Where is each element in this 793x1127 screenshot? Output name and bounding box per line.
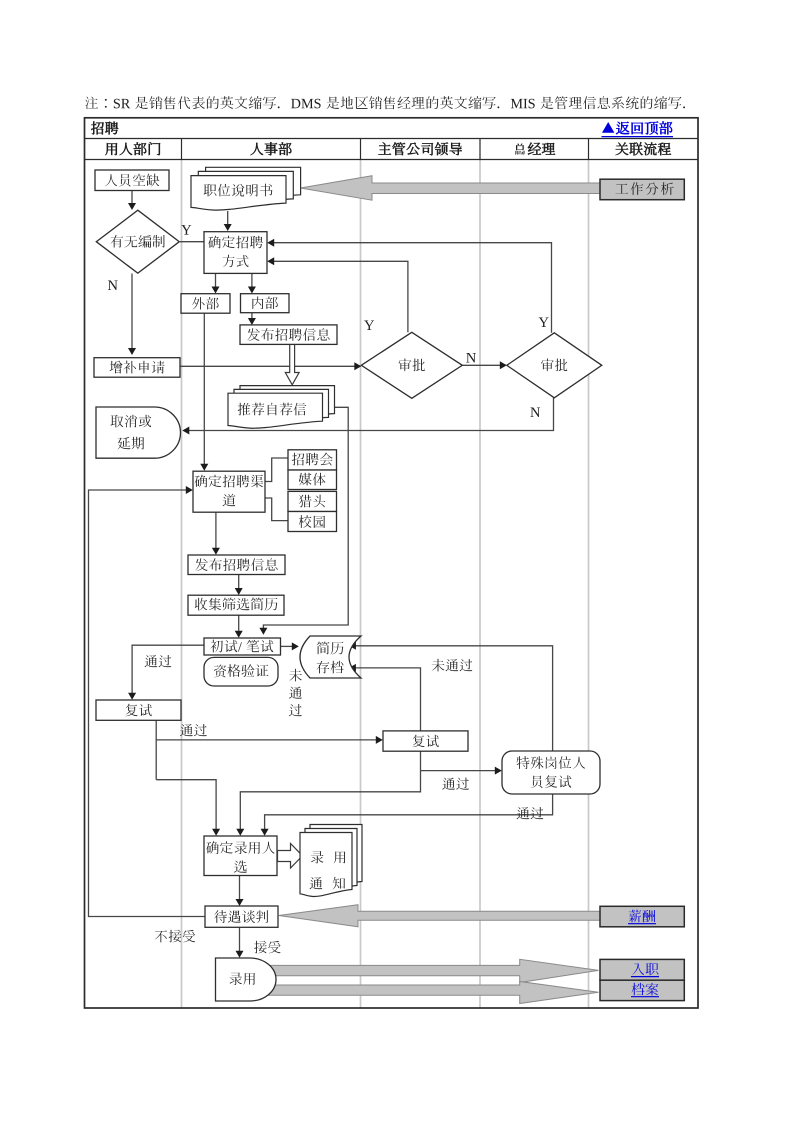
- gray arrow from 工作分析 to 职位说明书: [301, 176, 602, 201]
- wire 发布招聘信息2 to 收集筛选简历: [238, 575, 240, 590]
- related link box 入职: [600, 959, 684, 980]
- node 人员空缺: [95, 170, 169, 191]
- wire 审批2 Y up to 确定招聘方式: [273, 243, 552, 333]
- document stack 推荐自荐信: [240, 386, 335, 421]
- wire 推荐自荐信 to 初试笔试: [263, 407, 348, 629]
- table body column dividers: [181, 160, 183, 1009]
- wire 复试2 to 确定录用人选 b: [240, 771, 420, 831]
- wire 收集筛选简历 to 初试笔试: [238, 615, 240, 632]
- node 发布招聘信息 1: [240, 325, 337, 345]
- node 招聘会: [288, 450, 337, 470]
- wire 复试1 down-branch: [155, 720, 157, 779]
- node 发布招聘信息 2: [188, 555, 285, 575]
- label N approval1: [466, 353, 476, 362]
- header 主管公司领导: [379, 142, 391, 154]
- wire branch to 确定录用人选 a: [156, 780, 216, 831]
- label Y approval1: [364, 321, 374, 330]
- node 确定招聘方式: [204, 232, 267, 274]
- node 资格验证: [204, 657, 278, 686]
- header 用人部门: [105, 143, 117, 155]
- wire 外部 down to 确定招聘渠道: [203, 313, 205, 465]
- note text: [85, 97, 98, 110]
- node 猎头: [288, 491, 337, 511]
- node 增补申请: [94, 358, 180, 378]
- header 关联流程: [616, 142, 629, 155]
- document stack 职位说明书: [206, 167, 301, 202]
- label Y approval2: [539, 318, 549, 327]
- node 初试笔试: [204, 638, 281, 655]
- node 外部: [181, 294, 230, 314]
- label 未通过 vertical: [289, 669, 302, 682]
- node 待遇谈判: [205, 906, 278, 927]
- label 未通过 right: [432, 659, 445, 672]
- stored-data 简历存档: [300, 636, 361, 678]
- wire 复试2 未通过 up to 简历存档: [354, 668, 421, 731]
- gray arrow from 录用 to 入职: [263, 959, 599, 982]
- link 返回顶部: [602, 122, 614, 133]
- decision 审批2: [507, 333, 602, 398]
- table outer border: [85, 118, 699, 1008]
- wire 确定招聘渠道 bracket to 招聘会: [265, 458, 288, 482]
- wire 待遇谈判 不接受 loop to 确定招聘渠道: [89, 490, 206, 917]
- wire 确定录用人选 to 待遇谈判: [239, 875, 241, 900]
- node 复试1: [96, 700, 181, 720]
- gray arrow from 录用 to 档案: [263, 982, 599, 1004]
- wire 审批1 N to 审批2: [462, 364, 501, 366]
- header 总经理: [515, 144, 524, 155]
- related link box 档案: [600, 980, 684, 1000]
- wire 确定招聘方式 to 外部: [215, 274, 217, 289]
- node 内部: [241, 294, 290, 313]
- terminator 取消或延期: [96, 407, 180, 458]
- related link box 薪酬: [600, 906, 684, 927]
- document stack 录用通知: [310, 825, 362, 889]
- label N approval2: [530, 408, 540, 417]
- wire branch to 复试2: [156, 739, 377, 741]
- hollow arrow 确定录用人选 to 录用通知: [278, 844, 303, 869]
- title 招聘: [91, 122, 104, 135]
- related box 工作分析: [600, 179, 684, 200]
- wire 待遇谈判 to 录用: [239, 927, 241, 952]
- wire 职位说明书 to 确定招聘方式: [227, 211, 229, 226]
- label 通过 2: [180, 724, 193, 736]
- wire 确定招聘渠道 bracket to 校园: [265, 498, 288, 521]
- header 人事部: [251, 143, 264, 155]
- wire 初试笔试 通过 to 复试1: [132, 645, 204, 694]
- node 收集筛选简历: [188, 595, 284, 615]
- wire 确定招聘方式 to 内部: [251, 274, 253, 289]
- wire 审批1 Y up to 确定招聘方式: [273, 261, 408, 332]
- label 通过 3: [442, 778, 455, 790]
- wire 人员空缺 to 有无编制: [131, 190, 133, 204]
- wire 特殊岗位 通过 to 确定录用人选 c: [265, 794, 553, 831]
- gray arrow from 薪酬 to 待遇谈判: [279, 905, 601, 927]
- wire 初试笔试 to 简历存档: [280, 645, 293, 647]
- wire 确定招聘渠道 to 发布招聘信息2: [215, 512, 217, 549]
- wire 有无编制 Y to 确定招聘方式: [180, 241, 204, 243]
- hollow arrow 发布招聘信息 to 推荐自荐信: [285, 345, 299, 385]
- wire 特殊岗位 未通过 up to 简历存档: [354, 646, 553, 751]
- node 确定招聘渠道: [193, 471, 265, 512]
- node 特殊岗位人员复试: [502, 751, 600, 794]
- node 校园: [288, 512, 337, 532]
- wire 复试2 to 特殊岗位人员复试: [420, 751, 422, 770]
- label 不接受: [155, 930, 167, 942]
- wire 审批2 N to 取消或延期: [188, 398, 554, 431]
- table header row line: [85, 159, 699, 161]
- wire 内部 to 发布招聘信息: [251, 313, 253, 320]
- label 接受: [254, 941, 267, 954]
- node 确定录用人选: [204, 836, 277, 876]
- label 通过 1: [145, 655, 158, 667]
- node 复试2: [383, 731, 468, 751]
- table title row line: [85, 138, 699, 140]
- wire 增补申请 to 审批1: [180, 365, 356, 367]
- label N1: [108, 281, 118, 290]
- node 媒体: [288, 470, 337, 490]
- decision 有无编制: [96, 210, 179, 273]
- header column dividers: [181, 139, 183, 160]
- wire 有无编制 N down to 增补申请: [131, 274, 133, 350]
- label 通过 4: [517, 807, 530, 819]
- decision 审批1: [361, 332, 462, 398]
- label Y1: [181, 225, 191, 234]
- terminator 录用: [216, 958, 277, 1001]
